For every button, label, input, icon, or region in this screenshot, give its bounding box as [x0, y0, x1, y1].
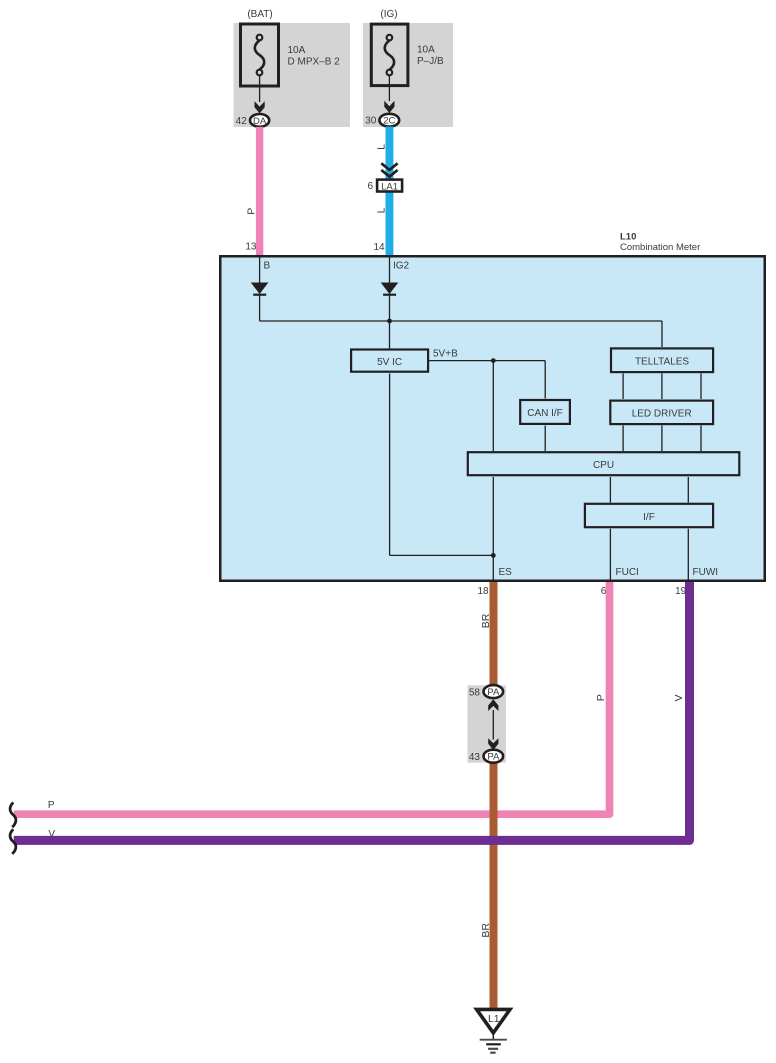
svg-text:L1: L1: [488, 1013, 500, 1025]
svg-text:42: 42: [236, 116, 248, 127]
svg-text:B: B: [264, 261, 271, 272]
svg-text:ES: ES: [499, 567, 513, 578]
svg-text:L: L: [375, 207, 387, 213]
svg-text:P: P: [48, 800, 55, 811]
svg-text:10A: 10A: [288, 45, 306, 56]
svg-text:BR: BR: [480, 613, 492, 628]
svg-text:6: 6: [367, 181, 373, 192]
svg-text:V: V: [673, 694, 685, 701]
svg-text:I/F: I/F: [643, 512, 655, 523]
svg-text:P: P: [246, 208, 258, 215]
svg-text:13: 13: [245, 242, 257, 253]
svg-text:FUWI: FUWI: [693, 567, 719, 578]
svg-text:5V IC: 5V IC: [377, 357, 402, 368]
svg-text:TELLTALES: TELLTALES: [635, 357, 689, 368]
svg-text:58: 58: [469, 687, 481, 698]
svg-text:D MPX–B 2: D MPX–B 2: [288, 56, 341, 67]
svg-text:P–J/B: P–J/B: [417, 56, 444, 67]
svg-text:IG2: IG2: [393, 261, 410, 272]
svg-text:2C: 2C: [383, 116, 395, 127]
svg-text:L10: L10: [620, 231, 636, 242]
svg-text:18: 18: [477, 586, 489, 597]
svg-text:CPU: CPU: [593, 460, 614, 471]
svg-text:V: V: [48, 829, 55, 840]
svg-text:LED DRIVER: LED DRIVER: [632, 409, 692, 420]
svg-text:BR: BR: [480, 923, 492, 938]
svg-text:30: 30: [365, 116, 377, 127]
svg-text:PA: PA: [487, 687, 500, 698]
svg-text:FUCI: FUCI: [616, 567, 639, 578]
svg-text:PA: PA: [487, 752, 500, 763]
svg-text:5V+B: 5V+B: [433, 348, 458, 359]
svg-text:P: P: [595, 694, 607, 701]
svg-text:L: L: [375, 144, 387, 150]
svg-text:43: 43: [469, 752, 481, 763]
svg-text:Combination Meter: Combination Meter: [620, 242, 700, 253]
svg-text:(BAT): (BAT): [247, 9, 272, 20]
svg-text:19: 19: [675, 586, 687, 597]
svg-text:DA: DA: [253, 116, 267, 127]
svg-text:CAN I/F: CAN I/F: [527, 408, 563, 419]
svg-text:10A: 10A: [417, 45, 435, 56]
svg-text:(IG): (IG): [380, 9, 397, 20]
svg-text:LA1: LA1: [381, 181, 398, 192]
svg-text:14: 14: [373, 242, 385, 253]
